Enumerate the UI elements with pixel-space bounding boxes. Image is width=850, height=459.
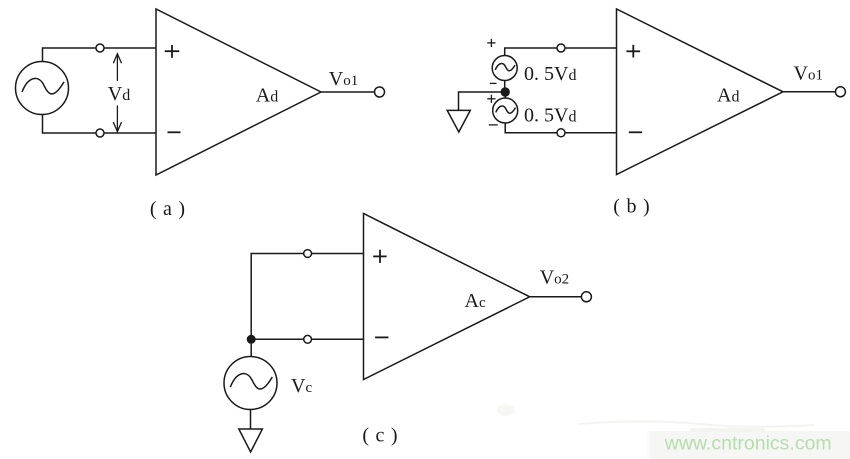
node terminal top (a): [96, 44, 104, 52]
svg-text:Ad: Ad: [256, 85, 278, 107]
upper source 0.5Vd (b): [492, 56, 517, 81]
polarity + of lower source (b): [487, 95, 495, 103]
output wire (a): [321, 91, 375, 93]
junction node (b): [501, 88, 509, 96]
pin - label (a): [168, 131, 181, 133]
wire junction to source Vc: [250, 339, 252, 356]
wire source-bottom to -input (a): [43, 115, 157, 134]
pin + label (a): [165, 45, 180, 58]
ground (b): [447, 110, 470, 132]
output node Vo2 (c): [581, 292, 591, 302]
node terminal top (b): [557, 44, 565, 52]
pin + label (c): [373, 250, 386, 263]
wire junction to lower source (b): [504, 92, 506, 98]
svg-text:www.cntronics.com: www.cntronics.com: [664, 433, 832, 455]
wire junction to ground (b): [459, 92, 506, 110]
node terminal top (c): [304, 250, 312, 258]
voltage source VS-a: [16, 62, 69, 115]
pin - label (c): [375, 336, 388, 338]
polarity - of upper source (b): [490, 82, 497, 84]
node terminal bottom (c): [304, 335, 312, 343]
node terminal bottom (a): [96, 129, 104, 137]
svg-text:(a): (a): [150, 198, 192, 220]
svg-text:Ad: Ad: [717, 85, 739, 107]
pin - label (b): [629, 131, 642, 133]
wire left rail to +input (c): [251, 254, 363, 340]
op-amp U1 (b) triangle: [617, 9, 784, 175]
output node Vo1 (a): [375, 87, 385, 97]
node terminal bottom (b): [557, 129, 565, 137]
output wire (c): [530, 296, 582, 298]
wire junction to -input (c): [251, 338, 363, 340]
op-amp U1 (a) triangle: [156, 9, 321, 175]
polarity + of upper source (b): [487, 39, 495, 47]
output wire (b): [783, 91, 835, 93]
op-amp U1 (c) triangle: [364, 214, 530, 380]
svg-text:Vd: Vd: [108, 83, 130, 105]
watermark background strip: [650, 431, 850, 459]
wire source to ground (c): [250, 410, 252, 430]
junction node (c): [247, 335, 255, 343]
polarity - of lower source (b): [489, 124, 498, 126]
svg-text:0. 5Vd: 0. 5Vd: [524, 63, 576, 85]
svg-text:(c): (c): [362, 424, 404, 446]
wire lower source to bottom rail (b): [505, 123, 616, 133]
wire source-top to +input (a): [43, 48, 157, 62]
output node Vo1 (b): [835, 87, 845, 97]
wire upper source to junction (b): [504, 81, 506, 93]
ground (c): [239, 429, 263, 452]
svg-text:0. 5Vd: 0. 5Vd: [524, 104, 576, 126]
svg-text:(b): (b): [613, 196, 656, 218]
voltage source Vc: [224, 357, 277, 410]
Vd measurement arrow: [114, 54, 122, 132]
lower source 0.5Vd (b): [493, 98, 518, 123]
wire upper source to top rail (b): [505, 48, 617, 56]
pin + label (b): [626, 45, 640, 58]
